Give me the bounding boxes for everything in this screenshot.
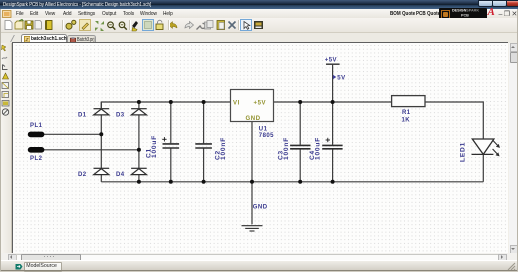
polarity + C4 xyxy=(326,138,330,142)
wire output rail U1 to R1 xyxy=(274,101,392,103)
capacitor C3 xyxy=(290,145,310,148)
wire U1 ground pin xyxy=(251,122,253,225)
diode D3 xyxy=(131,109,147,115)
junction C2 top xyxy=(202,100,206,104)
junction C4 +5V xyxy=(331,100,335,104)
wire R1 to LED1 xyxy=(425,102,483,139)
book xyxy=(46,21,52,30)
connector PL1 xyxy=(28,123,45,137)
ground symbol xyxy=(242,226,263,231)
label C2 100nF xyxy=(214,137,227,160)
component icon xyxy=(254,21,263,29)
wire top rail PL1-bridge-U1 input xyxy=(101,102,230,134)
zoom in xyxy=(108,22,114,28)
redo xyxy=(185,22,194,29)
node B junction PL2/bridge xyxy=(137,148,141,152)
diode D4 xyxy=(131,168,147,174)
open xyxy=(15,21,23,29)
wire PL1 to node A xyxy=(44,133,101,135)
junction C3 top xyxy=(298,100,302,104)
ink bottle xyxy=(132,21,138,28)
label LED1 xyxy=(459,142,466,162)
label D4 xyxy=(116,172,125,178)
connector PL2 xyxy=(28,147,45,162)
save xyxy=(25,21,33,29)
wire LED1 cathode to bottom rail xyxy=(482,155,484,182)
pressed pencil btn xyxy=(80,20,91,31)
polarity + C1 xyxy=(162,137,166,141)
copy sheets xyxy=(205,22,211,29)
label C3 100nF xyxy=(277,137,290,160)
pressed cursor btn xyxy=(241,20,252,31)
label +5V power xyxy=(325,57,337,63)
capacitor C1 xyxy=(163,144,180,148)
label U1 7805 xyxy=(259,127,274,140)
copy doc xyxy=(35,21,42,30)
node A junction PL1/bridge xyxy=(99,132,103,136)
new xyxy=(5,21,12,30)
gears xyxy=(66,23,72,29)
LED LED1 xyxy=(472,139,501,156)
undo xyxy=(169,22,178,29)
junction D4 bottom xyxy=(137,180,141,184)
zoom out xyxy=(119,22,125,28)
wrench xyxy=(197,23,206,29)
wire bottom rail xyxy=(101,181,483,183)
junction C2 bottom xyxy=(202,180,206,184)
label D2 xyxy=(78,172,87,178)
wire PL2 to node B xyxy=(44,149,139,151)
wire C2 vertical xyxy=(203,102,205,182)
wire C3 vertical xyxy=(299,102,301,182)
label R1 1K xyxy=(402,110,411,124)
resistor R1 xyxy=(392,96,425,107)
wire left bridge branch lower xyxy=(100,134,102,182)
label GND net xyxy=(253,205,268,211)
junction D3 top rail xyxy=(137,100,141,104)
label C1 100uF xyxy=(146,135,159,158)
diode D1 xyxy=(94,102,110,115)
net label 5V xyxy=(333,75,346,82)
capacitor C2 xyxy=(195,144,212,148)
capacitor C4 xyxy=(322,145,342,148)
wire C1 vertical xyxy=(170,102,172,182)
regulator U1 7805 box xyxy=(231,90,274,123)
junction C1 top xyxy=(169,100,173,104)
paste clipboard xyxy=(217,21,225,30)
junction C4 bottom xyxy=(331,180,335,184)
wire C4 vertical xyxy=(332,102,334,182)
zoom extents arrows xyxy=(95,21,104,31)
junction C1 bottom xyxy=(169,180,173,184)
padlock xyxy=(156,24,163,30)
power +5V symbol xyxy=(326,64,340,102)
label D1 xyxy=(78,113,87,119)
delete X xyxy=(229,22,236,29)
label D3 xyxy=(116,113,125,119)
junction U1 gnd rail xyxy=(250,180,254,184)
junction C3 bottom xyxy=(298,180,302,184)
pressed grid btn xyxy=(143,20,154,31)
diode D2 xyxy=(94,168,110,174)
label C4 100uF xyxy=(309,137,322,160)
wire right bridge branch xyxy=(138,102,140,182)
